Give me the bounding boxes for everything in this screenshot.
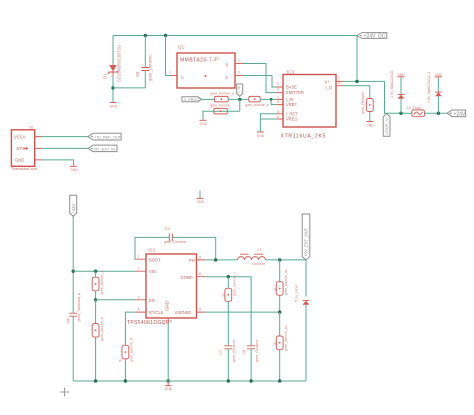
svg-text:2: 2 (277, 82, 279, 86)
wire flag to R3 (202, 98, 215, 100)
svg-text:GND: GND (165, 387, 173, 391)
wire Q1 pin3 to IC3 base (243, 76, 277, 88)
wire C5 to PH (172, 237, 215, 260)
node V+ junction (355, 80, 358, 83)
wire output column (305, 260, 307, 297)
wire Q1 pin2 to IC3 emitter (243, 64, 277, 93)
wire R4 to I_IN (260, 98, 276, 100)
flag E above gain node (237, 84, 243, 96)
flag LOOP_RTN (383, 113, 390, 136)
wire C7 to rail (227, 349, 229, 381)
node FB junction (278, 258, 281, 261)
node VIN junction (72, 270, 75, 273)
wire EN to IC (96, 299, 136, 301)
svg-text:C5′: C5′ (165, 227, 171, 231)
TVS diode D4 (427, 72, 442, 114)
svg-text:+24V: +24V (71, 203, 76, 213)
wire L1 to output (266, 259, 307, 261)
resistor R11 (274, 269, 289, 295)
svg-text:R′: R′ (274, 342, 278, 346)
flag RT_EXT_IN (88, 145, 117, 152)
svg-text:1: 1 (138, 255, 140, 259)
resistor R12 (274, 325, 289, 351)
svg-text:V+: V+ (325, 79, 331, 84)
svg-text:+5V_EXT_OUT: +5V_EXT_OUT (304, 227, 309, 256)
svg-text:gree_Tantalum_a: gree_Tantalum_a (77, 292, 81, 321)
svg-text:GND: GND (70, 168, 78, 172)
svg-text:+5v_REF_OUT: +5v_REF_OUT (94, 135, 121, 140)
svg-text:gree_bunnie_a: gree_bunnie_a (210, 91, 234, 95)
zener diode D1 (103, 45, 122, 82)
svg-text:L1: L1 (258, 248, 262, 252)
wire EN divider bottom (95, 300, 97, 324)
wire R10 to rail (124, 359, 126, 381)
node COMP junction (227, 275, 230, 278)
svg-text:J2: J2 (29, 125, 34, 130)
svg-text:8: 8 (277, 100, 279, 104)
node TVS2 junction (437, 112, 440, 115)
wire COMP RC (227, 277, 229, 289)
connector J2 (11, 125, 42, 172)
svg-text:E: E (226, 75, 229, 80)
svg-text:′IC3: ′IC3 (286, 70, 294, 75)
svg-text:VSENSE: VSENSE (175, 310, 192, 315)
capacitor C5 (164, 227, 187, 244)
svg-text:C7′: C7′ (219, 349, 223, 355)
svg-text:Q1′: Q1′ (178, 45, 185, 50)
svg-text:TPS54061DGQR′: TPS54061DGQR′ (127, 320, 171, 326)
wire EN divider top (95, 271, 97, 277)
svg-text:BASE: BASE (286, 85, 297, 90)
ground under IC3 (257, 132, 265, 138)
wire rows link (239, 99, 241, 111)
wire PH out (205, 259, 237, 261)
flag +24V (447, 110, 466, 117)
op-amp IC3 (277, 70, 344, 140)
node zener/cap junction (111, 86, 114, 89)
flag X_PROG (182, 97, 202, 102)
flag +24V_DC (357, 33, 387, 40)
svg-text:GND: GND (200, 122, 208, 126)
svg-text:3: 3 (277, 88, 279, 92)
wire I_O to R6 (344, 86, 370, 99)
resistor R4 (245, 96, 269, 107)
wire R12 to rail (279, 350, 281, 381)
flag +5V_REF_OUT (88, 133, 122, 140)
svg-text:1: 1 (277, 95, 279, 99)
wire VIN rail (73, 270, 136, 272)
node EN junction (94, 298, 97, 301)
resistor R8 (92, 271, 104, 295)
svg-text:R′: R′ (119, 359, 123, 363)
svg-text:gree_bunnie_b: gree_bunnie_b (100, 317, 104, 341)
svg-text:>: > (238, 90, 240, 94)
wire below zener (112, 76, 114, 102)
svg-text:1A_Fuse′: 1A_Fuse′ (407, 106, 422, 110)
svg-text:MMBTA20-7-F′: MMBTA20-7-F′ (180, 58, 219, 64)
svg-text:RT/CLK: RT/CLK (149, 310, 164, 315)
regulator IC1 (127, 248, 205, 327)
capacitor C9 (135, 55, 153, 81)
svg-text:gree_bunnie_a: gree_bunnie_a (100, 271, 104, 295)
wire C8 to rail (250, 349, 252, 381)
svg-text:RT_EXT_IN: RT_EXT_IN (94, 146, 115, 151)
node PH junction (214, 258, 217, 261)
svg-text:GND: GND (435, 73, 443, 77)
wire VSENSE net (205, 311, 279, 313)
capacitor C6 (67, 292, 82, 323)
ground under J2 (70, 166, 78, 172)
svg-text:GND: GND (110, 104, 118, 108)
wire FB divider (279, 260, 281, 282)
svg-text:C: C (181, 75, 184, 80)
wire zener branch (112, 36, 114, 65)
resistor R6 (361, 91, 373, 114)
svg-text:EN: EN (149, 298, 155, 303)
resistor R10 (119, 338, 134, 363)
wire loop feed down (385, 81, 412, 113)
svg-text:gree_Resistor: gree_Resistor (361, 91, 365, 114)
wire FB divider lower (279, 312, 281, 336)
svg-text:1000uH: 1000uH (252, 262, 266, 266)
svg-text:COMP: COMP (181, 275, 194, 280)
wire VREG link (260, 118, 276, 120)
wire D2 to rail (305, 305, 307, 381)
capacitor C9 branch (144, 36, 146, 68)
wire ground rail (73, 380, 306, 382)
node rail j2 (124, 379, 127, 382)
fuse F1 (407, 106, 425, 117)
svg-text:gree_Ceramic: gree_Ceramic (148, 55, 153, 81)
svg-text:ThermistorConn: ThermistorConn (11, 167, 37, 171)
svg-text:C8′: C8′ (242, 349, 246, 355)
node VSENSE junction (278, 310, 281, 313)
node rail j1 (94, 379, 97, 382)
wire V+ net (344, 80, 385, 82)
svg-text:gree_Ceramic: gree_Ceramic (164, 240, 187, 244)
svg-text:gree_Ceramic: gree_Ceramic (232, 339, 236, 362)
svg-text:R′: R′ (274, 288, 278, 292)
svg-text:VIN: VIN (149, 269, 156, 274)
svg-text:GND: GND (197, 200, 205, 204)
svg-text:EMITTER: EMITTER (286, 90, 304, 95)
wire IC1 GND pin to rail (167, 318, 169, 323)
wire +24V column (72, 216, 74, 312)
wire R3 to R4 (228, 98, 249, 100)
node rail j3 (227, 379, 230, 382)
svg-text:gree_bunnie_av: gree_bunnie_av (284, 269, 288, 295)
svg-text:4: 4 (338, 81, 340, 85)
TVS diode D3 (390, 70, 405, 113)
ground under D1 (110, 103, 118, 109)
svg-text:GND: GND (165, 301, 170, 311)
svg-text:5.1v_zener: 5.1v_zener (294, 283, 298, 302)
svg-text:2: 2 (238, 59, 240, 63)
resistor R3 (210, 91, 234, 102)
node top rail j2 (164, 34, 167, 37)
ground under R5 (200, 120, 208, 126)
svg-text:gree_bunnie_c: gree_bunnie_c (233, 272, 237, 296)
node EN top junction (94, 270, 97, 273)
svg-text:1.5v_SMAJ24CA: 1.5v_SMAJ24CA (390, 70, 394, 98)
wire VREF row (205, 110, 240, 112)
svg-text:gree_Ceramic: gree_Ceramic (255, 339, 259, 362)
wire RT/CLK net (125, 312, 135, 345)
svg-text:VREG: VREG (286, 117, 298, 122)
svg-text:VCCA: VCCA (14, 134, 26, 139)
svg-text:5: 5 (277, 110, 279, 114)
svg-text:′IC1: ′IC1 (148, 248, 156, 253)
svg-text:VREF: VREF (286, 102, 297, 107)
wire VREF link down (271, 99, 276, 104)
svg-text:8: 8 (199, 255, 201, 259)
wire +24V_DC drop (356, 36, 358, 82)
svg-text:SZ1SMB5913BT3G: SZ1SMB5913BT3G (117, 45, 122, 82)
origin cross (60, 388, 69, 397)
svg-text:3: 3 (238, 71, 240, 75)
zener diode D2 (294, 283, 309, 304)
svg-text:gree_bunnie_bv: gree_bunnie_bv (284, 325, 288, 351)
inductor L1 (238, 248, 266, 267)
svg-text:C6′: C6′ (67, 318, 71, 324)
svg-text:gree_bunnie_rt: gree_bunnie_rt (130, 338, 134, 362)
svg-text:GND: GND (366, 123, 374, 127)
svg-text:gain_bunnie_a: gain_bunnie_a (245, 103, 269, 107)
node rail j5 (278, 379, 281, 382)
svg-text:X_PROG′: X_PROG′ (184, 98, 200, 102)
ground stray (197, 197, 204, 199)
svg-text:3: 3 (138, 295, 140, 299)
wire VCCA to flag (42, 136, 89, 138)
wire NTC to flag (42, 147, 89, 149)
svg-text:1: 1 (169, 71, 171, 75)
svg-text:LOOP_V: LOOP_V (384, 118, 389, 134)
transistor Q1 (169, 45, 243, 89)
svg-text:B: B (226, 63, 229, 68)
wire stray gnd stub (199, 191, 201, 199)
wire GND pin (42, 160, 74, 166)
svg-text:XTR116UA_2K5: XTR116UA_2K5 (281, 134, 327, 140)
wire R11 to VSENSE (279, 295, 281, 312)
resistor R9 (92, 317, 104, 341)
wire below C9 (144, 71, 146, 88)
svg-text:+24V_DC: +24V_DC (364, 34, 386, 40)
svg-text:5: 5 (199, 308, 201, 312)
svg-text:+24V: +24V (454, 111, 466, 117)
wire R8 to EN (95, 291, 97, 300)
svg-text:GND: GND (257, 134, 265, 138)
wire R6 to ground (369, 112, 371, 122)
node VREF junction (270, 98, 273, 101)
node top rail j1 (144, 34, 147, 37)
wire top +24V_DC rail (113, 35, 357, 37)
wire BOOT loop (135, 237, 169, 259)
svg-text:PH: PH (189, 258, 195, 263)
wire R comp to C comp (227, 301, 229, 345)
resistor R5 (210, 104, 230, 114)
svg-text:2: 2 (138, 267, 140, 271)
svg-text:1.5v_SMAJ24CA_1: 1.5v_SMAJ24CA_1 (427, 72, 431, 103)
node TVS1 junction (399, 112, 402, 115)
wire below C6 (72, 316, 74, 381)
svg-text:D1: D1 (103, 73, 108, 79)
wire COMP net (205, 277, 251, 346)
node gain junction (238, 98, 241, 101)
flag +24V vertical (70, 195, 77, 216)
ground below rail (165, 381, 171, 386)
svg-text:gree_bunnie: gree_bunnie (210, 104, 230, 108)
wire IRET VREG to ground (260, 114, 276, 132)
svg-text:BOOT: BOOT (149, 257, 161, 262)
node rail GND junction (167, 379, 170, 382)
svg-text:GND: GND (397, 73, 405, 77)
svg-text:R′: R′ (222, 294, 226, 298)
svg-text:6: 6 (199, 272, 201, 276)
wire fuse to +24V flag (425, 112, 448, 114)
svg-text:9: 9 (170, 320, 172, 324)
ground under R6 (366, 122, 374, 128)
svg-text:C9: C9 (135, 71, 140, 77)
svg-text:4: 4 (138, 308, 140, 312)
capacitor C7 (219, 339, 236, 362)
wire to ground left (203, 111, 205, 120)
svg-text:GND: GND (15, 158, 24, 163)
svg-text:6: 6 (277, 115, 279, 119)
svg-text:I_O: I_O (326, 85, 333, 90)
capacitor C8 (242, 339, 259, 362)
wire to Q1 base (166, 36, 171, 76)
resistor R5 comp (222, 272, 237, 301)
flag +5V_EXT_OUT (302, 214, 310, 260)
node rail j4 (249, 379, 252, 382)
wire cross link (113, 87, 145, 89)
